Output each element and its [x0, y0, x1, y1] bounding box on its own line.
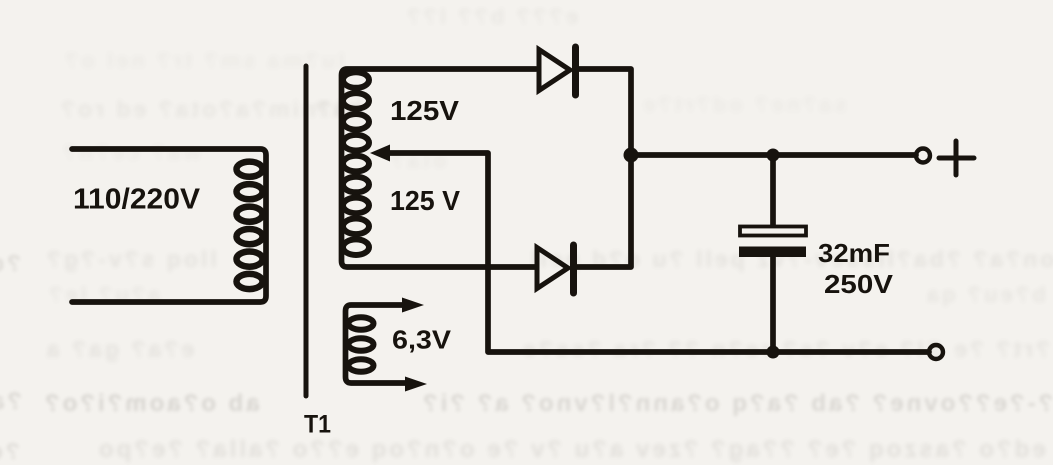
arrow: 6.3V bottom lead: [405, 377, 427, 392]
diode D2: [537, 245, 574, 293]
svg-text:6,3V: 6,3V: [392, 325, 452, 355]
transformer T1 primary winding wires and spine: [72, 149, 266, 302]
output terminal negative: [929, 345, 943, 359]
svg-text:125V: 125V: [390, 95, 459, 126]
capacitor C1 bottom plate (solid): [739, 247, 806, 258]
transformer T1 secondary 125V+125V winding wires and spine: [342, 69, 537, 267]
transformer T1 secondary 6.3V winding loops: [349, 317, 374, 371]
svg-text:32mF: 32mF: [818, 238, 890, 268]
svg-text:110/220V: 110/220V: [73, 184, 201, 216]
capacitor C1 top plate (hollow): [740, 227, 806, 236]
diode D1: [539, 47, 576, 95]
junction node A: [624, 148, 639, 163]
wire: center tap to negative rail: [383, 153, 929, 352]
svg-text:125 V: 125 V: [390, 185, 460, 216]
transformer T1 secondary 125V+125V winding loops: [343, 72, 369, 255]
wire: diode D1 cathode down to diode D2 cathode through node A: [577, 69, 631, 267]
junction: capacitor top on positive rail: [767, 149, 780, 162]
arrow: 6.3V top lead: [402, 298, 424, 313]
wire: node A to positive output terminal: [631, 152, 916, 158]
arrow: 125V center tap lead: [370, 145, 390, 162]
output terminal positive: [916, 149, 930, 163]
transformer T1 core: [304, 66, 309, 396]
transformer T1 secondary 6.3V winding wires and spine: [346, 305, 408, 383]
junction: capacitor bottom on negative rail: [767, 346, 780, 359]
svg-text:T1: T1: [304, 411, 331, 439]
transformer T1 primary winding loops: [237, 162, 263, 290]
wire: capacitor C1 top and bottom leads: [770, 155, 776, 352]
svg-text:250V: 250V: [824, 269, 894, 299]
polarity plus symbol: [939, 141, 974, 175]
